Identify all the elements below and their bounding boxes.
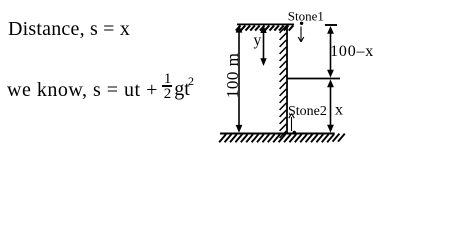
x dimension arrow (double headed)	[327, 79, 334, 132]
tower right wall line	[286, 24, 288, 134]
tower roof line	[237, 23, 294, 25]
svg-text:y: y	[254, 32, 262, 49]
ground line	[220, 133, 335, 135]
100-x dimension arrow (double headed)	[327, 26, 334, 78]
svg-text:100 m: 100 m	[223, 53, 242, 98]
equation line 1: Distance, s = x	[8, 19, 130, 39]
fraction numerator 1	[164, 72, 172, 87]
stone1 drop arrow (thin, down)	[298, 27, 304, 42]
roof hatching	[236, 25, 293, 30]
svg-text:Stone2: Stone2	[288, 104, 327, 119]
top tick of 100-x dimension	[325, 24, 337, 26]
fraction denominator 2	[164, 87, 172, 102]
svg-text:100–x: 100–x	[330, 43, 374, 60]
stone2 throw arrow (thin, up)	[289, 114, 294, 132]
100 m dimension arrow (double headed, left)	[236, 25, 243, 133]
equation line 2 main text: we know, s = ut +	[7, 80, 158, 100]
stone2 dot	[293, 131, 296, 134]
ground hatching	[219, 134, 345, 143]
y dimension arrow (double headed)	[260, 25, 266, 66]
superscript 2 of gt squared	[188, 75, 194, 87]
svg-text:Stone1: Stone1	[288, 8, 324, 23]
fraction bar	[162, 85, 172, 87]
ledge / middle horizontal line	[287, 78, 340, 80]
gt term	[174, 79, 190, 99]
wall hatching	[280, 26, 287, 138]
diagram svg	[0, 0, 450, 154]
svg-text:x: x	[335, 101, 343, 118]
stone1 drop dot	[300, 22, 303, 25]
